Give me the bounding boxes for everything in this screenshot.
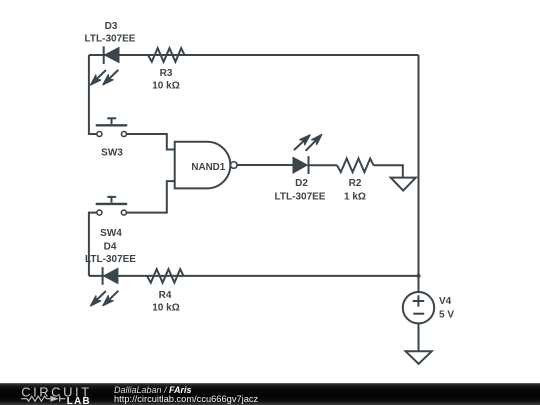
wire NAND1 output to D2	[237, 164, 293, 166]
svg-text:LTL-307EE: LTL-307EE	[275, 192, 326, 203]
svg-text:R3: R3	[160, 68, 173, 79]
wire V4 bottom to ground G2	[418, 323, 420, 351]
svg-text:LAB: LAB	[67, 396, 91, 405]
wire right rail down to V4	[418, 55, 420, 292]
CircuitLab logo	[0, 383, 110, 405]
wire D4/R4 row to right rail junction	[89, 275, 419, 277]
wire SW3 to NAND1 input A	[126, 134, 174, 150]
footer bar	[0, 383, 540, 405]
node junction at right rail and R4 wire	[416, 274, 420, 278]
svg-text:V4: V4	[439, 296, 452, 307]
switch SW4	[96, 197, 128, 215]
svg-text:NAND1: NAND1	[191, 162, 225, 173]
ground G2 below V4	[406, 351, 432, 364]
svg-text:1 kΩ: 1 kΩ	[344, 192, 366, 203]
svg-text:D4: D4	[104, 242, 117, 253]
resistor R3	[148, 48, 185, 62]
footer author text	[114, 385, 192, 395]
NAND gate NAND1 body	[175, 142, 231, 189]
svg-text:R4: R4	[159, 290, 172, 301]
LED D2	[293, 135, 322, 175]
wire top rail from D3/R3 to right rail	[89, 54, 419, 56]
footer url text	[114, 394, 258, 404]
voltage source V4	[403, 292, 434, 323]
wire R2 to ground G1	[374, 165, 403, 177]
svg-text:LTL-307EE: LTL-307EE	[85, 34, 136, 45]
svg-text:SW4: SW4	[100, 228, 122, 239]
resistor R2	[337, 159, 374, 173]
svg-text:R2: R2	[349, 178, 362, 189]
wire SW4 to NAND1 input B	[126, 181, 174, 213]
LED D3	[91, 46, 120, 85]
svg-text:LTL-307EE: LTL-307EE	[85, 254, 136, 265]
svg-text:5 V: 5 V	[439, 310, 454, 321]
LED D4	[91, 267, 119, 306]
NAND1 output bubble	[231, 162, 238, 169]
resistor R4	[147, 269, 184, 283]
svg-text:D3: D3	[105, 21, 118, 32]
switch SW3	[96, 118, 128, 136]
wire SW4 left vertical down to D4	[89, 213, 97, 276]
svg-text:10 kΩ: 10 kΩ	[152, 303, 179, 314]
svg-text:10 kΩ: 10 kΩ	[152, 81, 179, 92]
svg-text:D2: D2	[295, 178, 308, 189]
ground G1 after R2	[391, 178, 416, 191]
wire left vertical from top wire to SW3	[89, 55, 97, 134]
wire D2 to R2	[309, 164, 338, 166]
svg-text:SW3: SW3	[101, 148, 123, 159]
